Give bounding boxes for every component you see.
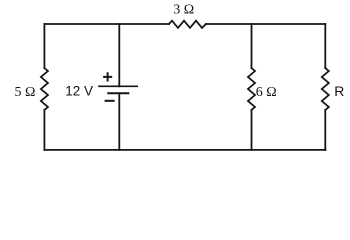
wire battery branch lower (118, 93, 120, 150)
resistor 3 Ω (top horizontal) (169, 21, 206, 28)
wire middle branch lower (251, 110, 253, 150)
svg-text:12 V: 12 V (65, 83, 93, 98)
wire top segment right (206, 23, 325, 25)
resistor R (right vertical) (322, 68, 329, 110)
wire left edge lower (43, 110, 45, 150)
resistor 5 Ω (left vertical) (41, 68, 48, 110)
wire left edge upper (43, 24, 45, 68)
svg-text:5 Ω: 5 Ω (15, 85, 36, 100)
wire right edge lower (324, 110, 326, 150)
wire top segment left (node between battery and 3-ohm) (44, 23, 169, 25)
battery + polarity mark (104, 73, 111, 80)
svg-text:3 Ω: 3 Ω (173, 3, 194, 18)
svg-text:R: R (334, 83, 344, 99)
svg-text:6 Ω: 6 Ω (256, 85, 277, 100)
wire right edge upper (324, 24, 326, 68)
wire middle branch upper (6 Ω branch) (251, 24, 253, 68)
battery V1 12 V : long positive plate (99, 85, 137, 87)
battery V1 12 V : short negative plate (108, 92, 128, 94)
battery − polarity mark (106, 100, 114, 102)
resistor 6 Ω (middle vertical) (248, 68, 255, 110)
wire battery branch upper (118, 24, 120, 86)
wire bottom (ground return) (44, 149, 325, 151)
